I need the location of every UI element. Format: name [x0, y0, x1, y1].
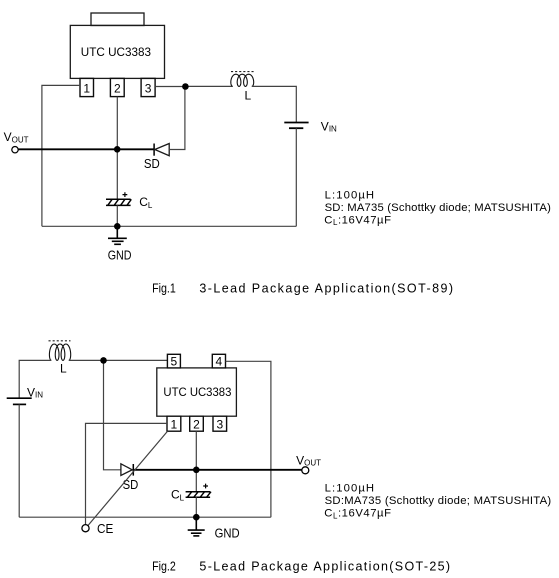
label SD — [144, 157, 160, 171]
svg-text:Fig.2: Fig.2 — [152, 560, 176, 574]
pin 2 — [110, 78, 124, 96]
wire inductor to pin5 — [69, 359, 168, 361]
pin 3 — [141, 78, 155, 96]
svg-text:CL: CL — [171, 488, 185, 503]
battery VIN minus plate — [289, 127, 303, 129]
svg-text:GND: GND — [215, 526, 240, 540]
svg-text:3-Lead Package Application(SOT: 3-Lead Package Application(SOT-89) — [199, 282, 453, 296]
svg-text:VOUT: VOUT — [296, 454, 321, 468]
svg-text:SD: MA735 (Schottky diode; MAT: SD: MA735 (Schottky diode; MATSUSHITA) — [325, 202, 552, 214]
node SW junction dot — [182, 83, 189, 90]
svg-text:5: 5 — [171, 355, 178, 369]
capacitor CL top plate — [106, 198, 131, 200]
terminal VOUT open circle — [12, 147, 18, 153]
svg-text:L: L — [60, 362, 67, 376]
capacitor CL plus sign — [123, 192, 128, 197]
wire inductor left to battery — [19, 360, 51, 398]
svg-text:CE: CE — [97, 522, 113, 536]
svg-text:2: 2 — [114, 82, 121, 96]
capacitor CL2 top plate — [186, 491, 211, 493]
ground symbol GND fig2 — [188, 517, 205, 536]
caption fig1 — [152, 282, 453, 296]
wire capacitor to ground rail — [116, 205, 118, 226]
inductor L1 label L — [245, 89, 252, 103]
pin 5 — [167, 354, 180, 368]
diode SD triangle — [155, 144, 169, 156]
inductor L1 dashed core line — [231, 71, 255, 73]
svg-text:5-Lead Package Application(SOT: 5-Lead Package Application(SOT-25) — [199, 560, 450, 574]
svg-text:VOUT: VOUT — [4, 130, 29, 144]
wire pin3 to SW node — [155, 86, 185, 88]
wire diode to VOUT terminal — [133, 469, 301, 471]
svg-text:L:100µH: L:100µH — [325, 190, 375, 202]
inductor L2 coil — [49, 344, 70, 360]
capacitor CL2 hatch stripes — [187, 492, 211, 498]
battery VIN2 minus plate — [13, 403, 26, 405]
label GND — [108, 249, 132, 263]
diode SD2 cathode bar — [132, 464, 134, 476]
inductor L2 dashed core line — [49, 340, 71, 342]
label VIN — [321, 120, 337, 134]
svg-text:CL:16V47µF: CL:16V47µF — [324, 214, 391, 227]
node rail junction dot fig2 — [193, 514, 200, 521]
label VOUT fig2 — [296, 454, 321, 468]
wire pin1 to left rail — [42, 85, 80, 226]
svg-text:SD: SD — [123, 478, 139, 492]
inductor L1 coil — [231, 74, 254, 86]
svg-text:L: L — [245, 89, 252, 103]
wire capacitor to rail fig2 — [195, 497, 197, 517]
IC U1 body UTC UC3383 — [70, 25, 164, 78]
ground symbol GND — [108, 226, 127, 244]
label GND fig2 — [215, 526, 240, 540]
pin 1 — [80, 78, 94, 96]
node VOUT junction dot — [114, 146, 121, 153]
capacitor CL bottom plate — [106, 204, 131, 206]
terminal VOUT open circle fig2 — [302, 467, 309, 474]
pin 3 fig2 — [213, 416, 227, 431]
wire pin2 down through VOUT node to capacitor — [116, 97, 118, 200]
note text fig2 — [324, 483, 551, 521]
pin 4 — [212, 354, 225, 368]
svg-text:4: 4 — [216, 355, 223, 369]
svg-text:SD:MA735 (Schottky diode; MATS: SD:MA735 (Schottky diode; MATSUSHITA) — [325, 495, 552, 507]
svg-text:Fig.1: Fig.1 — [152, 282, 176, 296]
svg-text:L:100µH: L:100µH — [325, 483, 375, 495]
svg-text:UTC UC3383: UTC UC3383 — [163, 385, 231, 399]
wire battery to bottom rail — [295, 128, 297, 226]
wire LX node down to diode anode — [104, 360, 121, 469]
wire diode anode up to SW node — [169, 88, 185, 150]
label CE — [97, 522, 113, 536]
pin 2 fig2 — [190, 416, 204, 431]
label CL fig2 — [171, 488, 185, 503]
terminal CE open circle — [82, 525, 89, 532]
wire diagonal pin1 to CE — [88, 431, 168, 525]
svg-text:VIN: VIN — [321, 120, 337, 134]
svg-text:1: 1 — [171, 418, 178, 432]
node LX junction dot fig2 — [100, 357, 107, 364]
wire bottom ground rail — [42, 225, 296, 227]
label VOUT — [4, 130, 29, 144]
svg-text:3: 3 — [216, 418, 223, 432]
capacitor CL hatch stripes — [108, 199, 132, 205]
label SD fig2 — [123, 478, 139, 492]
wire battery to bottom rail fig2 — [18, 404, 20, 517]
wire pin2 down to capacitor fig2 — [195, 431, 197, 492]
wire inductor to battery — [252, 86, 296, 122]
note text fig1 — [324, 190, 551, 228]
inductor L2 label L — [60, 362, 67, 376]
svg-text:CL:16V47µF: CL:16V47µF — [324, 508, 391, 521]
capacitor CL2 plus sign — [203, 484, 208, 489]
diode SD2 triangle — [121, 464, 132, 476]
battery VIN plus plate — [284, 122, 308, 124]
pin 1 fig2 — [167, 416, 181, 431]
label CL — [139, 195, 153, 210]
node ground junction dot — [114, 223, 121, 230]
wire SW node to inductor — [185, 85, 232, 87]
svg-text:2: 2 — [193, 418, 200, 432]
svg-text:1: 1 — [83, 82, 90, 96]
node VOUT junction dot fig2 — [193, 467, 200, 474]
label VIN fig2 — [27, 386, 43, 400]
svg-text:SD: SD — [144, 157, 160, 171]
svg-text:CL: CL — [139, 195, 153, 210]
battery VIN2 plus plate — [7, 397, 32, 399]
wire VOUT to diode cathode — [18, 148, 154, 150]
wire pin1 left and down to CE — [86, 423, 168, 524]
wire pin4 to right rail — [226, 361, 271, 517]
IC U2 body UTC UC3383 — [157, 368, 237, 416]
diode SD cathode bar — [153, 144, 155, 156]
svg-text:UTC UC3383: UTC UC3383 — [81, 45, 151, 59]
wire bottom rail fig2 — [19, 516, 271, 518]
caption fig2 — [152, 560, 450, 574]
svg-text:GND: GND — [108, 249, 132, 263]
svg-text:3: 3 — [145, 82, 152, 96]
capacitor CL2 bottom plate — [186, 496, 211, 498]
IC U1 tab — [91, 13, 144, 26]
